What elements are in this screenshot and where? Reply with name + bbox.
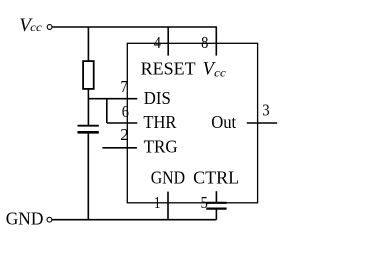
- node Vcc (supply terminal label): [19, 15, 42, 36]
- pin 3 Out lead stub: [247, 122, 277, 124]
- pin 6 THR lead: [107, 122, 138, 124]
- capacitor C2 CTRL bypass top plate: [206, 202, 226, 204]
- terminal GND open circle: [47, 217, 52, 222]
- svg-text:THR: THR: [143, 112, 176, 132]
- svg-text:TRG: TRG: [144, 137, 178, 157]
- svg-text:2: 2: [120, 125, 129, 144]
- svg-text:CTRL: CTRL: [193, 167, 239, 187]
- svg-text:cc: cc: [214, 67, 226, 79]
- svg-text:1: 1: [154, 193, 161, 212]
- pin 7 DIS lead and wire from resistor node: [88, 98, 137, 100]
- capacitor C2 CTRL bypass bottom plate: [206, 208, 226, 210]
- capacitor C1 bottom plate: [78, 131, 99, 134]
- wire resistor to capacitor node: [87, 89, 89, 125]
- wire capacitor to ground rail: [87, 134, 89, 220]
- resistor R1: [83, 61, 94, 89]
- wire link DIS node to THR: [106, 99, 108, 123]
- op-amp U1 555 timer body: [127, 43, 257, 203]
- svg-text:8: 8: [201, 33, 208, 52]
- svg-text:6: 6: [122, 102, 129, 121]
- pin 5 CTRL lead: [215, 191, 217, 202]
- svg-text:GND: GND: [6, 209, 44, 229]
- svg-text:cc: cc: [30, 22, 42, 34]
- svg-text:4: 4: [154, 33, 162, 52]
- capacitor C1 top plate: [78, 125, 99, 127]
- terminal Vcc open circle: [47, 25, 52, 30]
- svg-text:7: 7: [121, 77, 129, 96]
- svg-text:RESET: RESET: [141, 59, 196, 79]
- wire Vcc top rail: [52, 26, 217, 28]
- wire GND bottom rail: [52, 219, 216, 221]
- label Vcc inside chip: [203, 59, 226, 79]
- pin 1 GND lead to ground rail: [167, 192, 169, 220]
- pin 2 TRG lead stub: [102, 147, 136, 149]
- wire CTRL capacitor to ground rail: [215, 210, 217, 220]
- svg-text:DIS: DIS: [144, 88, 171, 108]
- pin 8 Vcc lead: [215, 27, 217, 56]
- svg-text:3: 3: [262, 100, 269, 119]
- pin 4 RESET lead: [167, 27, 169, 56]
- wire Vcc rail to resistor: [87, 27, 89, 62]
- svg-text:GND: GND: [151, 167, 185, 187]
- svg-text:Out: Out: [211, 112, 236, 132]
